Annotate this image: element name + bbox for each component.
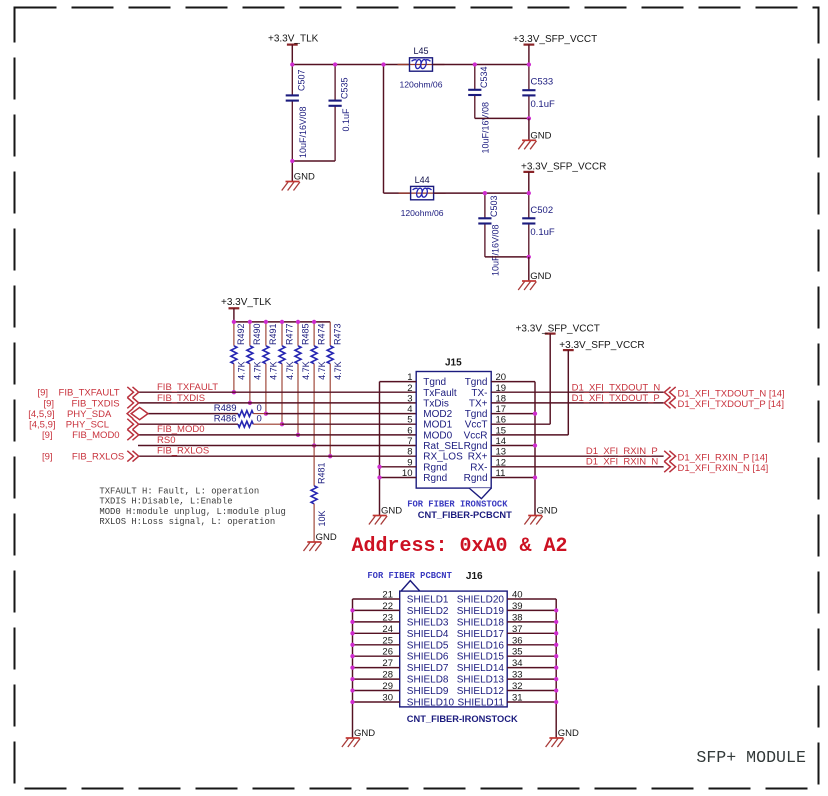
wire +3.3V_TLK stub — [291, 45, 293, 65]
svg-text:18: 18 — [496, 393, 507, 404]
power +3.3V_SFP_VCCT (J15) — [516, 323, 600, 334]
svg-text:GND: GND — [354, 728, 375, 739]
junction J16 pin 23 rail — [350, 620, 354, 624]
wire to L44 input — [384, 192, 411, 194]
svg-text:RX-: RX- — [470, 462, 487, 473]
svg-text:Tgnd: Tgnd — [465, 377, 488, 388]
junction C503 top — [483, 191, 487, 195]
svg-text:10: 10 — [402, 468, 413, 479]
junction C502 bottom — [527, 255, 531, 259]
junction rail/R477 — [280, 320, 284, 324]
J16 pin 40 (SHIELD20) — [457, 590, 556, 606]
svg-text:FOR FIBER IRONSTOCK: FOR FIBER IRONSTOCK — [407, 500, 508, 510]
svg-text:0: 0 — [257, 403, 262, 414]
wire PHY_SDA left — [148, 413, 238, 415]
J16 pin 27 (SHIELD7) — [353, 658, 449, 674]
svg-text:40: 40 — [512, 590, 523, 601]
wire branch down to L44 — [383, 65, 385, 194]
wire PHY_SDA right — [266, 413, 416, 415]
svg-text:SHIELD15: SHIELD15 — [457, 652, 505, 663]
svg-text:26: 26 — [382, 647, 393, 658]
wire FIB_TXDIS — [139, 402, 417, 404]
junction J16 pin 36 rail — [554, 643, 558, 647]
svg-text:C503: C503 — [489, 195, 499, 217]
svg-text:GND: GND — [530, 271, 551, 282]
wire C507/C535 bottom — [292, 160, 335, 162]
J16 pin 31 (SHIELD11) — [457, 693, 556, 709]
resistor R490 — [247, 322, 263, 403]
port D1_XFI_TXDOUT_P — [572, 393, 784, 410]
power +3.3V_SFP_VCCT (top) — [513, 34, 597, 45]
junction J16 pin 22 rail — [350, 608, 354, 612]
svg-text:120ohm/06: 120ohm/06 — [401, 208, 444, 218]
svg-text:PHY_SDA: PHY_SDA — [67, 409, 112, 420]
wire RS0 — [138, 445, 416, 447]
svg-text:4.7K: 4.7K — [285, 361, 295, 380]
power +3.3V_TLK (top) — [268, 34, 319, 45]
junction J16 pin 39 rail — [554, 608, 558, 612]
svg-text:32: 32 — [512, 681, 523, 692]
junction J16 pin 33 rail — [554, 677, 558, 681]
wire +3.3V_TLK rail to L45 — [292, 64, 409, 66]
svg-text:C502: C502 — [530, 205, 553, 216]
svg-text:TxFault: TxFault — [423, 388, 457, 399]
svg-text:CNT_FIBER-IRONSTOCK: CNT_FIBER-IRONSTOCK — [407, 714, 518, 724]
svg-text:Rgnd: Rgnd — [464, 441, 488, 452]
svg-text:4: 4 — [407, 404, 412, 415]
junction pin17 rail — [533, 411, 537, 415]
J15 left ground rail — [379, 382, 381, 516]
svg-text:C507: C507 — [297, 69, 307, 91]
svg-text:15: 15 — [496, 425, 507, 436]
svg-text:FIB_MOD0: FIB_MOD0 — [157, 424, 205, 435]
svg-text:R474: R474 — [316, 323, 326, 345]
svg-text:RX+: RX+ — [468, 452, 488, 463]
svg-text:R489: R489 — [214, 403, 237, 414]
svg-text:+3.3V_SFP_VCCT: +3.3V_SFP_VCCT — [513, 34, 597, 45]
J16 pin 21 (SHIELD1) — [353, 590, 449, 606]
junction J16 pin 24 rail — [350, 631, 354, 635]
junction TLK/C507 — [290, 62, 294, 66]
junction J16 pin 27 rail — [350, 665, 354, 669]
svg-text:RXLOS H:Loss signal, L: operat: RXLOS H:Loss signal, L: operation — [99, 517, 275, 527]
junction C534 top — [473, 62, 477, 66]
svg-text:SHIELD2: SHIELD2 — [407, 606, 449, 617]
svg-text:9: 9 — [407, 457, 412, 468]
svg-text:3: 3 — [407, 393, 412, 404]
wire FIB_RXLOS — [139, 455, 417, 457]
svg-text:0: 0 — [257, 414, 262, 425]
svg-text:D1_XFI_RXIN_N: D1_XFI_RXIN_N — [586, 457, 658, 468]
svg-text:[9]: [9] — [42, 452, 53, 463]
J15 pin 14 (Rgnd) — [464, 436, 535, 452]
svg-text:D1_XFI_TXDOUT_N: D1_XFI_TXDOUT_N — [572, 383, 661, 394]
svg-text:TX-: TX- — [471, 388, 487, 399]
svg-text:34: 34 — [512, 658, 523, 669]
svg-text:J15: J15 — [445, 358, 462, 369]
svg-text:Rat_SEL: Rat_SEL — [423, 441, 463, 452]
J16 pin 23 (SHIELD3) — [353, 612, 449, 628]
junction J16 pin 29 rail — [350, 688, 354, 692]
resistor R477 — [279, 322, 295, 424]
J15 pin 6 (MOD0) — [407, 425, 452, 441]
junction J16 pin 30 rail — [350, 700, 354, 704]
svg-text:SHIELD1: SHIELD1 — [407, 595, 449, 606]
wire VCCR to pin15 — [567, 350, 569, 435]
svg-text:Rgnd: Rgnd — [464, 473, 488, 484]
svg-text:19: 19 — [496, 383, 507, 394]
note text TXFAULT/TXDIS/MOD0/RXLOS — [99, 486, 285, 527]
svg-text:0.1uF: 0.1uF — [530, 227, 554, 238]
svg-text:SHIELD12: SHIELD12 — [457, 686, 505, 697]
capacitor C507 — [291, 65, 293, 162]
svg-text:Tgnd: Tgnd — [465, 409, 488, 420]
junction J16 pin 35 rail — [554, 654, 558, 658]
junction R490 bottom — [248, 401, 252, 405]
svg-text:R491: R491 — [268, 323, 278, 345]
svg-text:SHIELD3: SHIELD3 — [407, 617, 449, 628]
J15 pin 3 (TxDis) — [407, 393, 449, 409]
svg-text:FIB_TXFAULT: FIB_TXFAULT — [157, 382, 218, 393]
junction J16 pin 25 rail — [350, 643, 354, 647]
svg-text:0.1uF: 0.1uF — [531, 99, 555, 110]
svg-text:SFP+ MODULE: SFP+ MODULE — [696, 748, 806, 767]
svg-text:C534: C534 — [479, 66, 489, 88]
wire FIB_TXFAULT — [139, 391, 417, 393]
junction C533 bottom — [527, 116, 531, 120]
svg-text:25: 25 — [382, 635, 393, 646]
svg-text:TXFAULT H: Fault, L: operation: TXFAULT H: Fault, L: operation — [99, 486, 259, 496]
J15 pin 15 (VccR) — [464, 425, 569, 441]
svg-text:10uF/16V/08: 10uF/16V/08 — [491, 224, 501, 276]
svg-text:12: 12 — [496, 457, 507, 468]
svg-text:35: 35 — [512, 647, 523, 658]
svg-text:R490: R490 — [252, 323, 262, 345]
port FIB_TXDIS — [43, 398, 138, 410]
svg-text:TXDIS H:Disable, L:Enable: TXDIS H:Disable, L:Enable — [99, 497, 232, 507]
svg-text:SHIELD13: SHIELD13 — [457, 675, 505, 686]
svg-text:10K: 10K — [317, 510, 327, 526]
capacitor C534 plates — [468, 90, 481, 95]
svg-text:[9]: [9] — [37, 388, 48, 399]
power +3.3V_SFP_VCCR (J15) — [559, 340, 644, 351]
svg-text:D1_XFI_TXDOUT_N [14]: D1_XFI_TXDOUT_N [14] — [678, 389, 785, 400]
port D1_XFI_RXIN_N — [586, 457, 768, 475]
svg-text:27: 27 — [382, 658, 393, 669]
port FIB_MOD0 — [42, 430, 139, 442]
svg-text:SHIELD5: SHIELD5 — [407, 640, 449, 651]
svg-text:R473: R473 — [333, 323, 343, 345]
svg-text:C535: C535 — [339, 77, 349, 99]
J15 pin 2 (TxFault) — [407, 383, 457, 399]
J16 pin 34 (SHIELD14) — [457, 658, 556, 674]
svg-text:30: 30 — [382, 693, 393, 704]
J15 pin 20 (Tgnd) — [465, 372, 535, 388]
svg-text:2: 2 — [407, 383, 412, 394]
wire GND stub C507 — [291, 161, 293, 182]
svg-text:R485: R485 — [300, 323, 310, 345]
port PHY_SCL — [29, 419, 139, 431]
svg-text:+3.3V_SFP_VCCR: +3.3V_SFP_VCCR — [559, 340, 644, 351]
svg-text:MOD1: MOD1 — [423, 420, 452, 431]
svg-text:21: 21 — [382, 590, 393, 601]
J16 pin 36 (SHIELD16) — [457, 635, 556, 651]
J16 pin 28 (SHIELD8) — [353, 670, 449, 686]
junction pin14 rail — [533, 443, 537, 447]
svg-text:11: 11 — [496, 468, 506, 479]
junction J16 pin 38 rail — [554, 620, 558, 624]
J15 pin 11 (Rgnd) — [464, 468, 535, 484]
svg-text:+3.3V_SFP_VCCT: +3.3V_SFP_VCCT — [516, 323, 600, 334]
svg-text:CNT_FIBER-PCBCNT: CNT_FIBER-PCBCNT — [418, 510, 512, 520]
svg-text:FIB_TXFAULT: FIB_TXFAULT — [59, 388, 120, 399]
svg-text:5: 5 — [407, 415, 412, 426]
svg-text:4.7K: 4.7K — [301, 361, 311, 380]
wire FIB_MOD0 — [139, 434, 417, 436]
svg-text:6: 6 — [407, 425, 412, 436]
svg-text:R481: R481 — [316, 462, 326, 484]
junction J16 pin 31 rail — [554, 700, 558, 704]
svg-text:23: 23 — [382, 612, 393, 623]
junction rail/R491 — [264, 320, 268, 324]
J15 pin 5 (MOD1) — [407, 415, 452, 431]
svg-text:SHIELD18: SHIELD18 — [457, 617, 505, 628]
svg-text:MOD2: MOD2 — [423, 409, 452, 420]
J16 pin 26 (SHIELD6) — [353, 647, 449, 663]
junction R491 bottom — [264, 411, 268, 415]
svg-text:GND: GND — [294, 172, 315, 183]
resistor R492 — [231, 322, 247, 392]
J16 pin 37 (SHIELD17) — [457, 624, 556, 640]
capacitor C502 — [528, 193, 530, 257]
svg-text:29: 29 — [382, 681, 393, 692]
resistor R486 — [214, 414, 282, 428]
capacitor C503 plates — [478, 218, 491, 223]
J15 pin 16 (VccT) — [465, 415, 550, 431]
J15 pin 9 (Rgnd) — [380, 457, 448, 473]
svg-text:FIB_TXDIS: FIB_TXDIS — [72, 398, 120, 409]
svg-text:D1_XFI_RXIN_P [14]: D1_XFI_RXIN_P [14] — [678, 453, 768, 464]
svg-text:R477: R477 — [284, 323, 294, 345]
junction R485 bottom — [296, 433, 300, 437]
svg-text:[9]: [9] — [42, 430, 53, 441]
ground (J16 right) — [546, 728, 579, 747]
svg-text:PHY_SCL: PHY_SCL — [66, 420, 109, 431]
J15 pin 1 (Tgnd) — [380, 372, 447, 388]
ground (J16 left) — [342, 728, 375, 747]
svg-text:C533: C533 — [531, 77, 554, 88]
junction rail/R485 — [296, 320, 300, 324]
svg-text:GND: GND — [530, 131, 551, 142]
svg-text:D1_XFI_TXDOUT_P [14]: D1_XFI_TXDOUT_P [14] — [678, 399, 784, 410]
junction pin9 rail — [377, 465, 381, 469]
J15 pin 7 (Rat_SEL) — [407, 436, 464, 452]
junction VCCR node — [527, 191, 531, 195]
power +3.3V_SFP_VCCR (top) — [521, 161, 606, 172]
svg-text:8: 8 — [407, 447, 412, 458]
wire C503/C502 bottom — [485, 256, 529, 258]
wire PHY_SCL right — [282, 423, 416, 425]
junction R473 bottom — [328, 454, 332, 458]
junction pin10 rail — [377, 475, 381, 479]
svg-text:SHIELD9: SHIELD9 — [407, 686, 449, 697]
J16 pin 25 (SHIELD5) — [353, 635, 449, 651]
svg-text:10uF/16V/08: 10uF/16V/08 — [298, 106, 308, 158]
ground (J15 right) — [524, 506, 557, 525]
svg-text:0.1uF: 0.1uF — [341, 108, 351, 132]
svg-text:TX+: TX+ — [469, 398, 488, 409]
svg-text:SHIELD19: SHIELD19 — [457, 606, 505, 617]
ground (C533) — [518, 131, 551, 150]
svg-text:38: 38 — [512, 612, 523, 623]
svg-text:20: 20 — [496, 372, 507, 383]
svg-text:SHIELD10: SHIELD10 — [407, 698, 455, 709]
svg-text:4.7K: 4.7K — [237, 361, 247, 380]
junction R477 bottom — [280, 422, 284, 426]
J15 right ground rail — [534, 382, 536, 516]
wire GND stub C502 — [528, 257, 530, 281]
svg-text:GND: GND — [558, 728, 579, 739]
J15 pin 8 (RX_LOS) — [407, 447, 463, 463]
svg-text:1: 1 — [407, 372, 412, 383]
J16 pin 35 (SHIELD15) — [457, 647, 556, 663]
J16 right ground rail — [555, 599, 557, 738]
capacitor C534 — [474, 65, 476, 119]
svg-text:31: 31 — [512, 693, 523, 704]
J16 pin 24 (SHIELD4) — [353, 624, 449, 640]
resistor R474 — [311, 322, 327, 446]
junction VCCT node — [527, 62, 531, 66]
wire VCCT to pin16 — [549, 334, 551, 425]
connector J15 body — [416, 372, 491, 489]
svg-text:SHIELD8: SHIELD8 — [407, 675, 449, 686]
capacitor C535 — [334, 65, 336, 162]
svg-text:L44: L44 — [415, 175, 430, 185]
J15 pin 4 (MOD2) — [407, 404, 452, 420]
capacitor C533 plates — [522, 90, 535, 95]
svg-text:FOR FIBER PCBCNT: FOR FIBER PCBCNT — [367, 571, 452, 581]
svg-text:4.7K: 4.7K — [253, 361, 263, 380]
J16 left ground rail — [352, 599, 354, 738]
svg-text:39: 39 — [512, 601, 523, 612]
wire TLK stub mid — [233, 308, 235, 322]
J16 pin 39 (SHIELD19) — [457, 601, 556, 617]
svg-text:GND: GND — [537, 506, 558, 517]
svg-text:10uF/16V/08: 10uF/16V/08 — [481, 102, 491, 154]
port D1_XFI_TXDOUT_N — [572, 383, 785, 400]
port FIB_RXLOS — [42, 451, 139, 463]
svg-text:13: 13 — [496, 447, 507, 458]
svg-text:SHIELD14: SHIELD14 — [457, 663, 505, 674]
svg-text:7: 7 — [407, 436, 412, 447]
svg-text:+3.3V_SFP_VCCR: +3.3V_SFP_VCCR — [521, 161, 606, 172]
J16 pin 33 (SHIELD13) — [457, 670, 556, 686]
svg-text:SHIELD4: SHIELD4 — [407, 629, 449, 640]
wire C534/C533 bottom — [475, 117, 529, 119]
svg-text:TxDis: TxDis — [423, 398, 449, 409]
svg-text:FIB_MOD0: FIB_MOD0 — [72, 430, 120, 441]
wire L45 out to VCCT — [433, 64, 529, 66]
junction L44 branch — [381, 62, 385, 66]
resistor R491 — [263, 322, 279, 414]
svg-text:28: 28 — [382, 670, 393, 681]
resistor R485 — [295, 322, 311, 435]
svg-text:120ohm/06: 120ohm/06 — [399, 80, 442, 90]
J16 pin 32 (SHIELD12) — [457, 681, 556, 697]
resistor R489 — [214, 403, 266, 417]
svg-text:+3.3V_TLK: +3.3V_TLK — [221, 297, 272, 308]
svg-text:4.7K: 4.7K — [269, 361, 279, 380]
J15 pin 12 (RX-) — [470, 457, 663, 473]
svg-text:D1_XFI_RXIN_N [14]: D1_XFI_RXIN_N [14] — [678, 463, 769, 474]
power +3.3V_TLK (mid) — [221, 297, 272, 308]
junction R492 bottom — [232, 390, 236, 394]
J16 pin 22 (SHIELD2) — [353, 601, 449, 617]
junction J16 pin 34 rail — [554, 665, 558, 669]
svg-text:[4,5,9]: [4,5,9] — [28, 409, 54, 420]
svg-text:[4,5,9]: [4,5,9] — [29, 420, 55, 431]
svg-text:22: 22 — [382, 601, 393, 612]
wire VCCT stub — [528, 45, 530, 65]
svg-text:L45: L45 — [413, 46, 428, 56]
ground (J15 left) — [369, 506, 402, 525]
J16 pin 30 (SHIELD10) — [353, 693, 455, 709]
svg-text:GND: GND — [381, 506, 402, 517]
svg-text:4.7K: 4.7K — [333, 361, 343, 380]
svg-text:4.7K: 4.7K — [317, 361, 327, 380]
svg-text:17: 17 — [496, 404, 507, 415]
inductor L44 — [399, 175, 446, 218]
svg-text:D1_XFI_TXDOUT_P: D1_XFI_TXDOUT_P — [572, 393, 660, 404]
svg-text:33: 33 — [512, 670, 523, 681]
svg-text:SHIELD16: SHIELD16 — [457, 640, 505, 651]
svg-text:+3.3V_TLK: +3.3V_TLK — [268, 34, 319, 45]
capacitor C502 plates — [522, 218, 535, 223]
svg-text:SHIELD20: SHIELD20 — [457, 595, 505, 606]
ground (R481) — [304, 532, 337, 551]
svg-text:J16: J16 — [466, 571, 483, 582]
ground (C502) — [518, 271, 551, 290]
svg-text:SHIELD17: SHIELD17 — [457, 629, 505, 640]
svg-text:[9]: [9] — [43, 398, 54, 409]
svg-text:MOD0 H:module unplug, L:module: MOD0 H:module unplug, L:module plug — [99, 507, 285, 517]
J16 pin 38 (SHIELD18) — [457, 612, 556, 628]
J16 pin 29 (SHIELD9) — [353, 681, 449, 697]
svg-text:SHIELD6: SHIELD6 — [407, 652, 449, 663]
junction TLK/C535 — [333, 62, 337, 66]
capacitor C503 — [484, 193, 486, 257]
svg-text:VccR: VccR — [464, 430, 488, 441]
J15 pin 13 (RX+) — [468, 447, 664, 463]
svg-text:14: 14 — [496, 436, 507, 447]
svg-text:SHIELD11: SHIELD11 — [457, 698, 504, 709]
svg-text:FIB_RXLOS: FIB_RXLOS — [157, 446, 209, 457]
svg-text:Rgnd: Rgnd — [423, 473, 447, 484]
junction J16 pin 32 rail — [554, 688, 558, 692]
J15 pin 18 (TX+) — [469, 393, 664, 409]
svg-text:SHIELD7: SHIELD7 — [407, 663, 449, 674]
junction J16 pin 26 rail — [350, 654, 354, 658]
junction J16 pin 28 rail — [350, 677, 354, 681]
svg-text:Address: 0xA0 & A2: Address: 0xA0 & A2 — [352, 535, 568, 558]
svg-text:16: 16 — [496, 415, 507, 426]
connector J15 bottom pointer — [469, 488, 491, 499]
capacitor C533 — [528, 65, 530, 119]
ground (C507) — [282, 172, 315, 191]
wire GND stub C533 — [528, 118, 530, 140]
svg-text:MOD0: MOD0 — [423, 430, 452, 441]
junction rail/R490 — [248, 320, 252, 324]
